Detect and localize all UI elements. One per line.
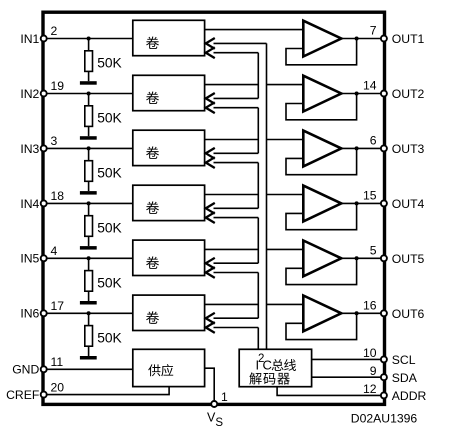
node output junction ch3	[355, 146, 359, 150]
wire supply to VS pin	[205, 368, 215, 401]
block label volume ch1	[146, 36, 159, 49]
volume block channel 6	[133, 295, 205, 330]
wire volume4 output to buffer	[205, 194, 304, 196]
pin SDA	[381, 374, 387, 380]
wire GND input	[46, 368, 133, 370]
wire CREF input	[46, 387, 169, 395]
node IN3 junction	[87, 146, 91, 150]
svg-text:D02AU1396: D02AU1396	[351, 411, 418, 425]
pin IN5	[41, 255, 47, 261]
block label volume ch4	[146, 201, 159, 214]
svg-text:19: 19	[51, 79, 65, 93]
pin OUT2	[381, 91, 387, 97]
wire OUT4 output	[341, 202, 381, 204]
svg-text:GND: GND	[12, 363, 39, 377]
wire control upper arrow ch4	[206, 203, 258, 214]
pin SCL	[381, 356, 387, 362]
svg-text:4: 4	[51, 244, 58, 258]
wire control upper arrow ch6	[206, 313, 258, 324]
resistor R5 50K	[85, 258, 93, 301]
wire volume2 output to buffer	[205, 84, 304, 86]
wire OUT3 output	[341, 147, 381, 149]
pin OUT4	[381, 200, 387, 206]
svg-text:50K: 50K	[97, 165, 122, 180]
block label volume ch5	[146, 256, 159, 269]
svg-text:14: 14	[363, 79, 377, 93]
op-amp buffer channel 5	[303, 241, 341, 277]
pin IN2	[41, 91, 47, 97]
svg-text:OUT5: OUT5	[392, 252, 425, 266]
svg-text:50K: 50K	[97, 111, 122, 126]
svg-text:50K: 50K	[97, 330, 122, 345]
supply block	[133, 349, 205, 386]
svg-text:CREF: CREF	[6, 388, 39, 402]
node IN1 junction	[87, 37, 91, 41]
node output junction ch6	[355, 311, 359, 315]
wire OUT6 output	[341, 312, 381, 314]
block label I2C bus line1	[256, 353, 297, 372]
op-amp buffer channel 1	[303, 21, 341, 57]
pin CREF	[41, 392, 47, 398]
node IN4 junction	[87, 201, 91, 205]
pin OUT1	[381, 36, 387, 42]
svg-text:IN3: IN3	[20, 142, 39, 156]
wire volume1 output to buffer	[205, 29, 304, 31]
node IN2 junction	[87, 92, 91, 96]
wire volume6 output to buffer	[205, 303, 304, 305]
svg-text:50K: 50K	[97, 220, 122, 235]
pin ADDR	[381, 392, 387, 398]
wire IN5 input	[46, 257, 133, 259]
svg-text:IN2: IN2	[20, 87, 39, 101]
wire OUT1 output	[341, 38, 381, 40]
wire IN1 input	[46, 38, 133, 40]
svg-text:7: 7	[370, 24, 377, 38]
pin VS	[211, 401, 217, 407]
volume block channel 3	[133, 130, 205, 165]
svg-text:IN6: IN6	[20, 307, 39, 321]
svg-text:SCL: SCL	[392, 353, 416, 367]
ground symbol R5	[80, 301, 97, 305]
svg-text:OUT1: OUT1	[392, 32, 425, 46]
resistor R6 50K	[85, 313, 93, 356]
wire feedback loop ch4	[286, 203, 357, 229]
node output junction ch4	[355, 201, 359, 205]
block label supply	[148, 364, 173, 376]
wire control lower arrow ch1	[206, 47, 258, 58]
wire SDA	[312, 376, 382, 378]
wire control upper arrow ch2	[206, 93, 258, 104]
svg-text:10: 10	[363, 346, 377, 360]
svg-text:12: 12	[363, 382, 377, 396]
pin OUT3	[381, 145, 387, 151]
svg-text:18: 18	[51, 189, 65, 203]
resistor R3 50K	[85, 148, 93, 191]
wire feedback loop ch3	[286, 148, 357, 174]
svg-text:20: 20	[51, 380, 65, 394]
op-amp buffer channel 4	[303, 186, 341, 222]
ground symbol R3	[80, 191, 97, 195]
svg-text:ADDR: ADDR	[392, 389, 427, 403]
wire control lower arrow ch6	[206, 322, 258, 333]
node IN5 junction	[87, 256, 91, 260]
volume block channel 5	[133, 240, 205, 275]
svg-text:OUT3: OUT3	[392, 142, 425, 156]
svg-text:2: 2	[51, 24, 58, 38]
wire control bus V1 segments	[257, 53, 259, 350]
wire control bus V2	[266, 43, 268, 349]
op-amp buffer channel 3	[303, 131, 341, 167]
resistor R2 50K	[85, 94, 93, 137]
wire control lower arrow ch4	[206, 212, 258, 223]
svg-text:5: 5	[370, 243, 377, 257]
svg-text:6: 6	[370, 133, 377, 147]
wire feedback loop ch2	[286, 94, 357, 120]
block label volume ch3	[146, 146, 159, 159]
wire control lower arrow ch2	[206, 102, 258, 113]
wire OUT5 output	[341, 257, 381, 259]
wire volume3 output to buffer	[205, 139, 304, 141]
node output junction ch1	[355, 37, 359, 41]
svg-text:IN4: IN4	[20, 197, 39, 211]
node output junction ch2	[355, 92, 359, 96]
svg-text:11: 11	[51, 355, 64, 369]
svg-text:C: C	[263, 358, 272, 373]
wire feedback loop ch1	[286, 39, 357, 65]
svg-text:OUT2: OUT2	[392, 87, 425, 101]
block label volume ch2	[146, 91, 159, 104]
wire feedback loop ch5	[286, 258, 357, 284]
pin IN3	[41, 145, 47, 151]
pin IN1	[41, 36, 47, 42]
svg-text:9: 9	[370, 364, 377, 378]
wire ADDR	[277, 387, 381, 396]
svg-text:15: 15	[363, 188, 377, 202]
pin IN6	[41, 310, 47, 316]
svg-text:50K: 50K	[97, 56, 122, 71]
wire control upper arrow ch5	[206, 258, 258, 269]
wire volume5 output to buffer	[205, 248, 304, 250]
volume block channel 1	[133, 20, 205, 55]
wire IN3 input	[46, 147, 133, 149]
ground symbol R2	[80, 136, 97, 140]
pin OUT5	[381, 255, 387, 261]
block label volume ch6	[146, 311, 159, 324]
volume block channel 4	[133, 185, 205, 220]
wire control lower arrow ch3	[206, 157, 258, 168]
wire control upper arrow ch1	[206, 38, 267, 49]
ground symbol R1	[80, 81, 97, 85]
svg-text:OUT6: OUT6	[392, 307, 425, 321]
node IN6 junction	[87, 311, 91, 315]
op-amp buffer channel 2	[303, 76, 341, 112]
wire OUT2 output	[341, 93, 381, 95]
svg-text:1: 1	[221, 390, 228, 404]
wire control upper arrow ch3	[206, 148, 258, 159]
svg-text:16: 16	[363, 298, 377, 312]
pin OUT6	[381, 310, 387, 316]
pin IN4	[41, 200, 47, 206]
svg-text:SDA: SDA	[392, 371, 418, 385]
resistor R4 50K	[85, 203, 93, 246]
pin GND	[41, 366, 47, 372]
chip outline border	[43, 12, 385, 404]
wire IN6 input	[46, 312, 133, 314]
I2C bus decoder block	[239, 349, 311, 386]
op-amp buffer channel 6	[303, 296, 341, 332]
volume block channel 2	[133, 75, 205, 110]
wire feedback loop ch6	[286, 313, 357, 339]
node output junction ch5	[355, 256, 359, 260]
block label I2C bus line2 decoder	[249, 372, 290, 384]
ground symbol R4	[80, 246, 97, 250]
svg-text:17: 17	[51, 299, 65, 313]
wire IN2 input	[46, 93, 133, 95]
svg-text:IN5: IN5	[20, 252, 39, 266]
svg-text:50K: 50K	[97, 275, 122, 290]
ground symbol R6	[80, 356, 97, 360]
wire IN4 input	[46, 202, 133, 204]
wire SCL	[312, 358, 382, 360]
wire control lower arrow ch5	[206, 267, 258, 278]
svg-text:3: 3	[51, 134, 58, 148]
svg-text:IN1: IN1	[20, 32, 39, 46]
resistor R1 50K	[85, 39, 93, 82]
svg-text:OUT4: OUT4	[392, 197, 425, 211]
